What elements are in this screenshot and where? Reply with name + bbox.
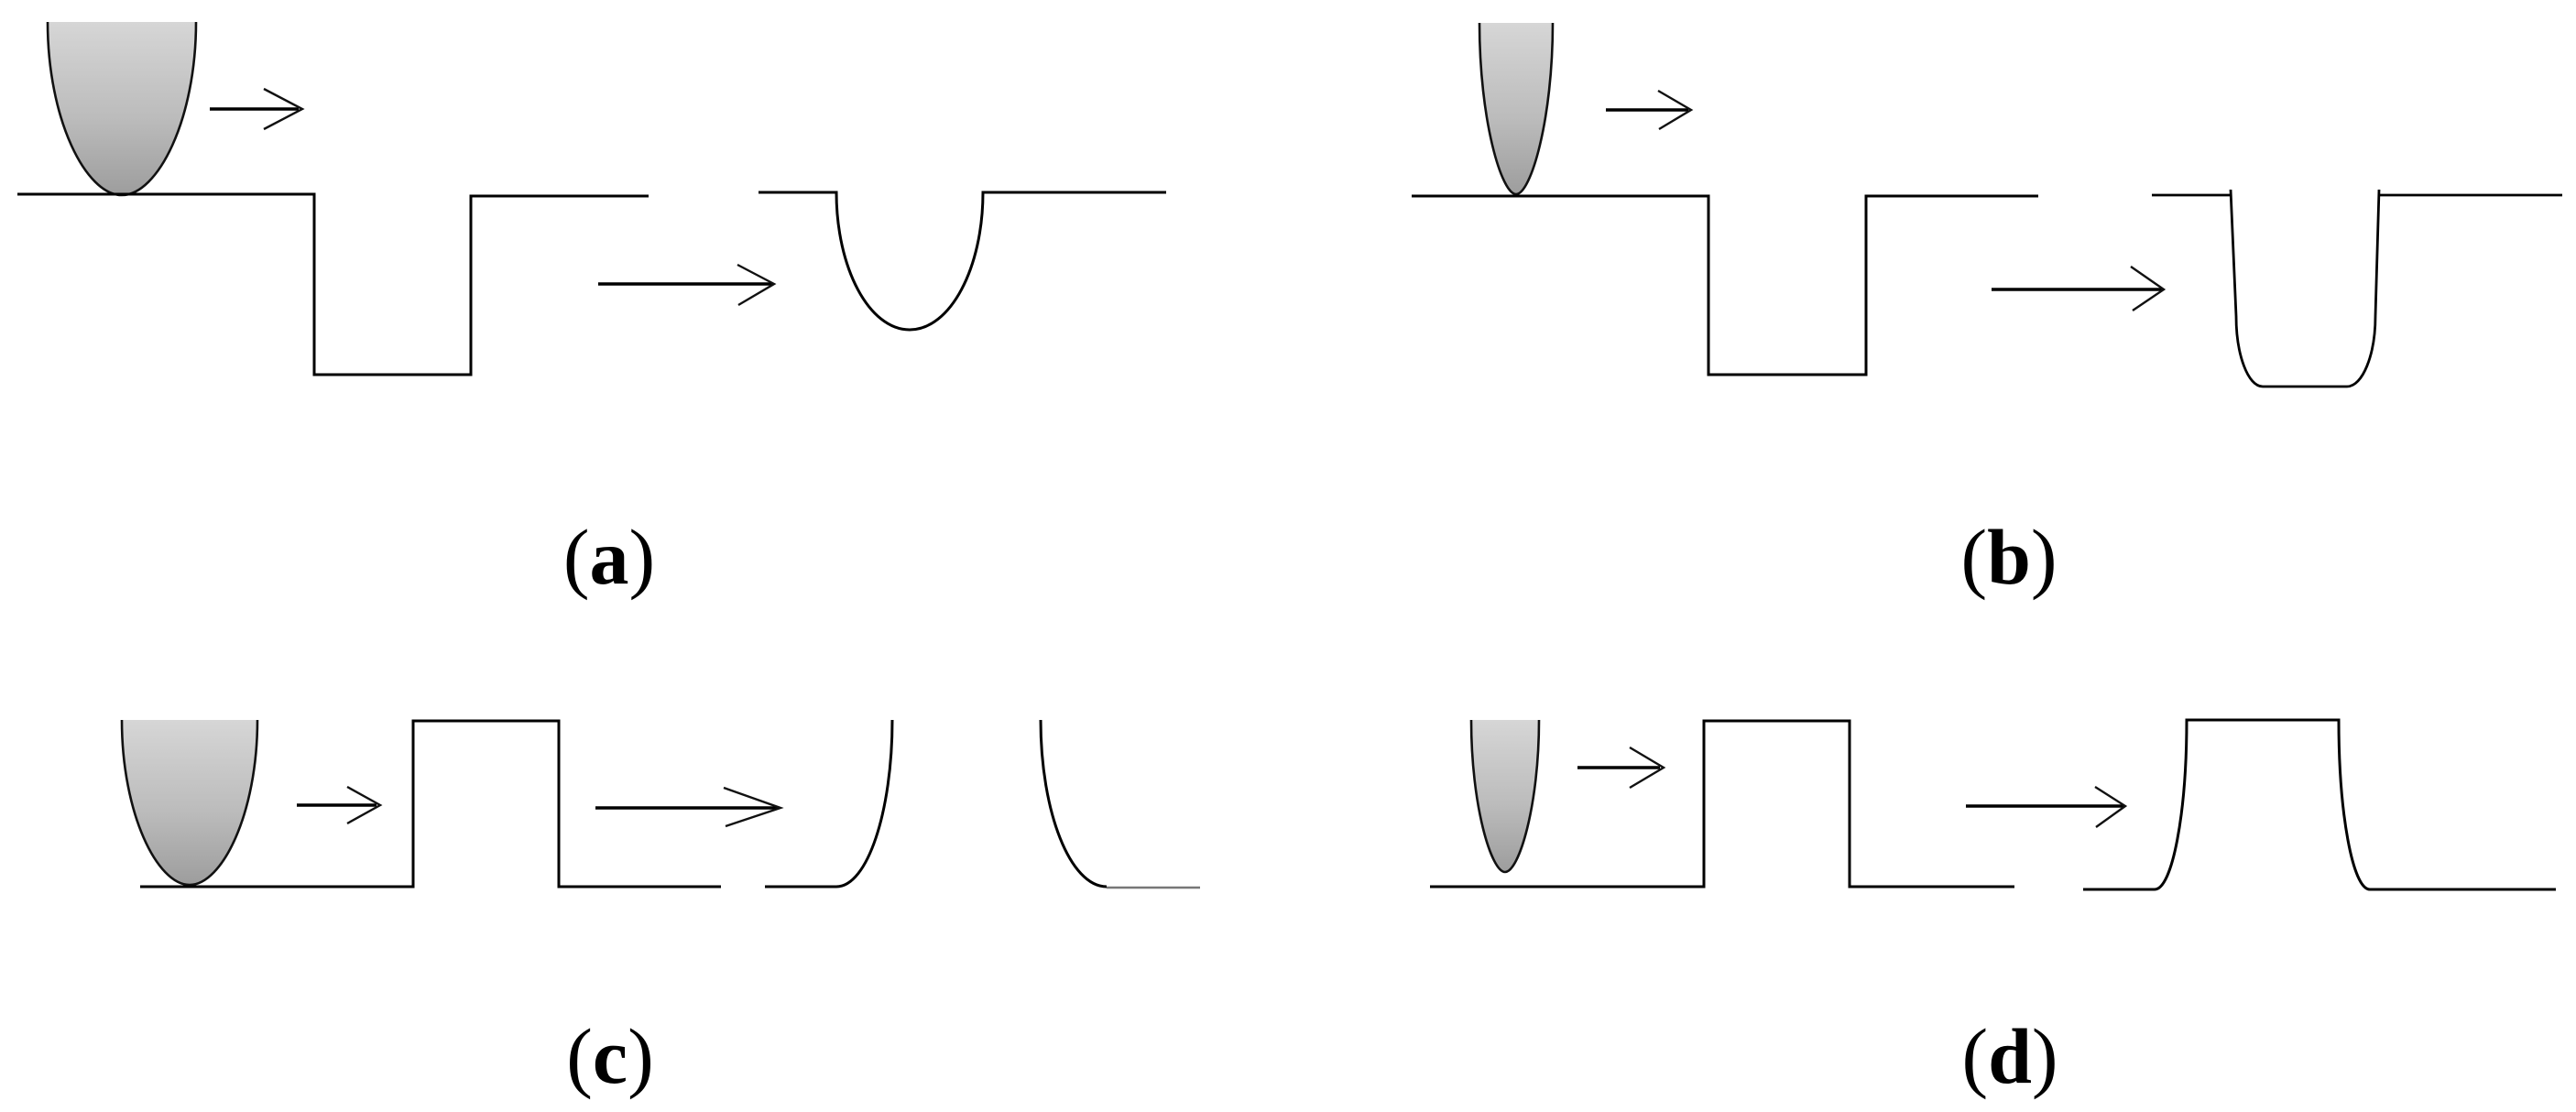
probe tip (b) sharp stylus <box>1479 23 1553 194</box>
svg-text:(a): (a) <box>563 513 655 601</box>
scan direction arrow (c) <box>297 787 380 823</box>
transform arrow (a) <box>598 265 774 305</box>
measured profile (c): flared ridge flanks, open top <box>765 720 1200 888</box>
measured profile (b): groove with rounded bottom corners <box>2152 190 2562 387</box>
svg-text:(c): (c) <box>566 1012 653 1100</box>
scan direction arrow (d) <box>1577 747 1664 788</box>
surface with rectangular ridge (d) <box>1430 721 2014 887</box>
svg-text:(d): (d) <box>1961 1012 2058 1100</box>
probe tip (a) wide stylus <box>48 22 196 195</box>
surface with rectangular groove (b) <box>1412 196 2038 375</box>
measured profile (a): broadened V-shaped groove image <box>759 192 1166 330</box>
transform arrow (b) <box>1992 267 2164 311</box>
transform arrow (c) <box>595 788 780 826</box>
surface with rectangular groove (a) <box>17 194 649 375</box>
svg-text:(b): (b) <box>1960 513 2057 601</box>
transform arrow (d) <box>1966 787 2125 827</box>
surface with rectangular ridge (c) <box>140 721 721 887</box>
probe tip (d) sharp stylus <box>1471 720 1539 872</box>
scan direction arrow (a) <box>210 89 302 129</box>
scan direction arrow (b) <box>1606 91 1691 129</box>
measured profile (d): broadened ridge with flared base <box>2083 720 2556 889</box>
probe tip (c) wide stylus <box>122 720 257 885</box>
